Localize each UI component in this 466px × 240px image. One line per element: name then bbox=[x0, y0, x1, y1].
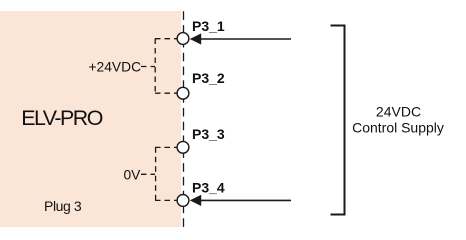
pin P3_2 bbox=[177, 70, 225, 99]
ELV-PRO module body (Plug 3 connector block) bbox=[0, 11, 181, 227]
svg-text:24VDC: 24VDC bbox=[376, 104, 421, 120]
bracket: 24VDC Control Supply group bbox=[331, 26, 345, 215]
svg-text:P3_1: P3_1 bbox=[192, 18, 225, 34]
net bracket 0V (dashed, ties P3_3 and P3_4) bbox=[141, 147, 177, 200]
arrowhead into P3_4 bbox=[190, 195, 201, 206]
wire: dashed connector boundary line bbox=[183, 11, 185, 227]
svg-text:+24VDC: +24VDC bbox=[89, 60, 142, 75]
wire: 24VDC supply feed to P3_4 bbox=[199, 199, 291, 201]
svg-text:P3_3: P3_3 bbox=[192, 126, 225, 142]
wire: 24VDC supply feed to P3_1 bbox=[199, 38, 291, 40]
svg-text:Control Supply: Control Supply bbox=[352, 120, 444, 136]
svg-text:P3_4: P3_4 bbox=[192, 179, 225, 195]
net bracket +24VDC (dashed, ties P3_1 and P3_2) bbox=[141, 39, 177, 94]
arrowhead into P3_1 bbox=[190, 33, 201, 44]
label 24VDC Control Supply bbox=[352, 104, 444, 136]
svg-text:P3_2: P3_2 bbox=[192, 70, 225, 86]
svg-text:0V: 0V bbox=[124, 167, 142, 182]
pin P3_3 bbox=[177, 126, 225, 153]
pin P3_1 bbox=[177, 18, 225, 44]
pin P3_4 bbox=[177, 179, 225, 206]
svg-text:ELV-PRO: ELV-PRO bbox=[21, 106, 103, 130]
svg-text:Plug 3: Plug 3 bbox=[44, 198, 82, 214]
